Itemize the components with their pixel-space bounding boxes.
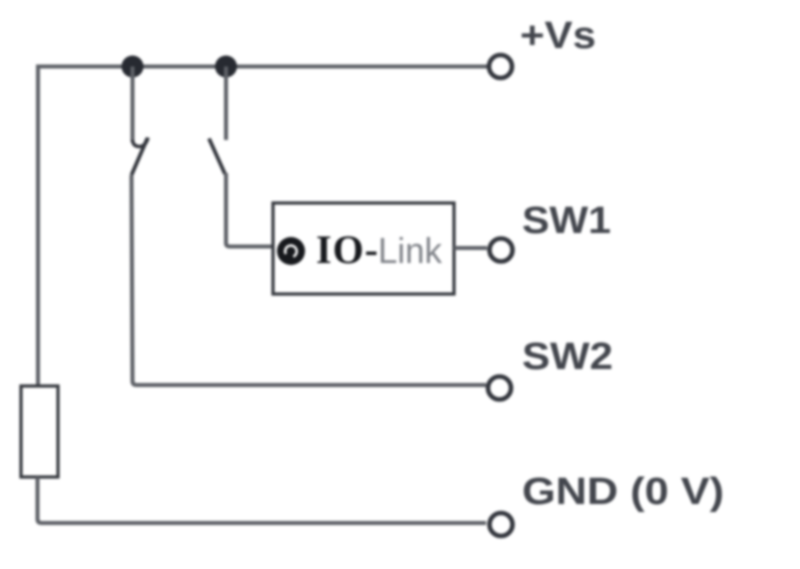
node: junction dot J1 on +Vs rail [122,56,144,78]
svg-text:SW1: SW1 [522,200,611,242]
svg-text:IO-: IO- [316,227,379,272]
wire: from switch S1 down into IO-Link box [226,173,272,247]
switch S2 (NC contact) seat hook [133,138,149,147]
wire: from IO-Link box to SW1 terminal [454,246,487,250]
terminal circle: +Vs [489,55,512,78]
wire: from resistor R1 to bottom GND rail [38,477,487,523]
svg-text:SW2: SW2 [522,336,613,378]
terminal circle: SW2 [488,377,511,400]
wire: from junction J1 down to NC switch S2 [131,67,135,143]
IO-Link interface box U1 [273,203,454,294]
node: junction dot J2 on +Vs rail [215,56,237,78]
terminal circle: GND [490,513,513,536]
wire: top +Vs rail from left rail to +Vs terminal [38,67,487,387]
wire: from switch S2 down and right to SW2 terminal [132,175,487,385]
switch S2 (NC contact) blade [132,138,148,175]
svg-text:GND (0 V): GND (0 V) [522,471,724,513]
terminal circle: SW1 [490,239,513,262]
switch S1 (NO contact) blade [209,139,225,175]
IO-Link logo roundel [277,237,305,265]
wire: from junction J2 down to NO switch S1 [224,67,228,141]
resistor R1 [21,386,58,477]
svg-text:+Vs: +Vs [520,15,596,57]
svg-text:Link: Link [378,230,443,271]
